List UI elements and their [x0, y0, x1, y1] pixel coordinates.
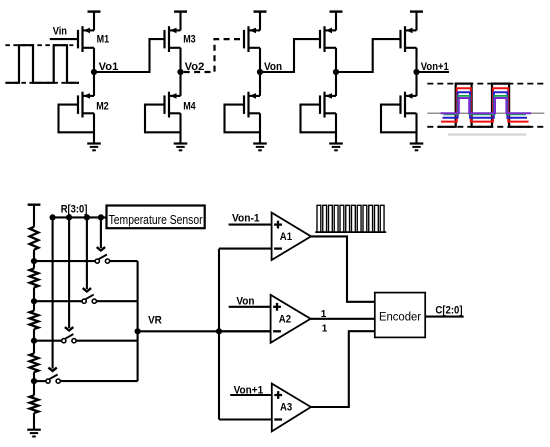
svg-text:M3: M3 — [183, 34, 196, 46]
svg-text:A2: A2 — [279, 313, 291, 325]
svg-text:M1: M1 — [97, 34, 110, 46]
svg-text:R[3:0]: R[3:0] — [61, 204, 88, 216]
svg-text:C[2:0]: C[2:0] — [435, 305, 462, 317]
svg-text:VR: VR — [148, 315, 162, 327]
svg-text:Vin: Vin — [53, 26, 68, 38]
svg-text:M4: M4 — [183, 101, 196, 113]
svg-text:Encoder: Encoder — [379, 309, 421, 323]
svg-text:Von+1: Von+1 — [234, 384, 264, 396]
svg-text:Von-1: Von-1 — [232, 212, 260, 224]
svg-text:A1: A1 — [280, 231, 292, 243]
svg-text:M2: M2 — [96, 101, 109, 113]
svg-text:Temperature Sensor: Temperature Sensor — [109, 213, 203, 227]
svg-text:1: 1 — [321, 309, 327, 320]
svg-text:1: 1 — [322, 323, 328, 334]
svg-text:A3: A3 — [280, 402, 292, 414]
svg-text:Von: Von — [236, 296, 254, 308]
